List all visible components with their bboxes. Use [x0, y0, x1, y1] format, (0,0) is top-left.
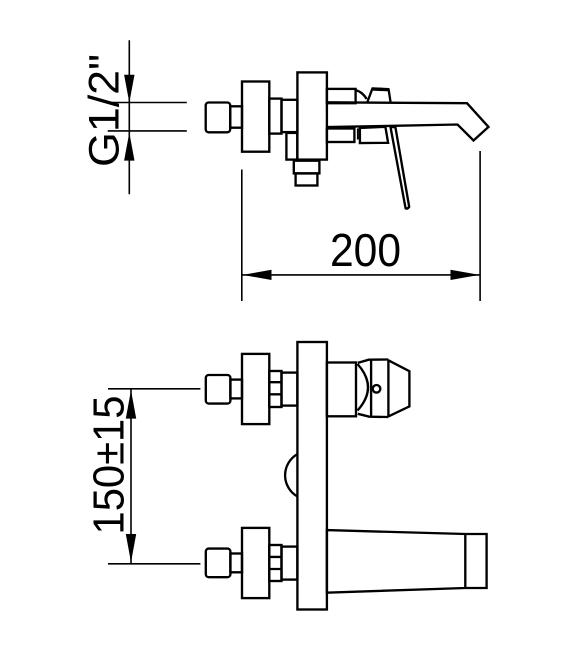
top view: inlet step — [230, 106, 242, 127]
bottom view: lower body connector — [282, 547, 298, 580]
bottom view: upper nut — [206, 375, 231, 404]
bottom view: knob base — [327, 363, 356, 417]
top view: aerator step 2 — [296, 173, 318, 185]
bottom view: lower hex facet lines — [269, 557, 281, 569]
dim G1/2: down arrowhead — [124, 75, 134, 103]
dim 150: down arrowhead — [126, 534, 136, 562]
bottom view: lower flange — [242, 528, 269, 598]
bottom view: lower hex — [269, 545, 281, 581]
bottom view: upper hex — [269, 371, 281, 407]
bottom view: upper body connector — [282, 373, 298, 406]
dim 150: upper extension line — [108, 388, 200, 390]
dim 200: dimension line — [242, 274, 480, 276]
bottom view: upper hex facet lines — [269, 382, 281, 394]
top view: handle grip bold top edge — [372, 87, 389, 91]
bottom view: cascade bump — [285, 454, 297, 496]
dim G1/2: dimension line — [128, 40, 130, 194]
top view: body connector — [282, 100, 298, 132]
dim G1/2: up arrowhead — [124, 133, 134, 161]
top view: handle lever — [391, 127, 410, 209]
bottom view: knob faceted end — [388, 360, 409, 418]
bottom view: knob cone top edge — [358, 360, 389, 363]
bottom view: upper step — [230, 380, 242, 399]
dim 150: lower extension line — [108, 563, 200, 565]
bottom view: knob face left edge — [370, 360, 372, 417]
dim 150: up arrowhead — [126, 390, 136, 418]
top view: aerator step 1 — [294, 161, 320, 174]
bottom view: wall plate — [297, 342, 327, 610]
bottom view: spout — [327, 530, 487, 593]
top view: lower stub — [327, 129, 355, 143]
top view: inlet nut — [206, 103, 231, 133]
svg-text:G1/2": G1/2" — [81, 54, 129, 167]
dim 150: dimension line — [130, 389, 132, 564]
bottom view: lower nut — [206, 549, 231, 578]
top view: under-spout housing — [360, 127, 388, 143]
bottom view: upper flange — [242, 354, 269, 424]
top view: inlet flange — [242, 82, 269, 152]
dim 200: left extension line — [241, 170, 243, 302]
dim 200: right extension line — [479, 151, 481, 301]
top view: cartridge dome arc — [356, 90, 367, 99]
top view: ring — [357, 128, 359, 139]
bottom view: lower step — [230, 554, 242, 573]
top view: handle grip — [367, 89, 390, 103]
top view: wall plate — [297, 72, 327, 159]
svg-text:150±15: 150±15 — [85, 396, 134, 535]
dim G1/2: upper extension line — [108, 102, 187, 104]
top view: upper stub — [327, 89, 356, 103]
top view: spout — [327, 102, 489, 140]
top view: lower body — [286, 133, 297, 160]
bottom view: knob dome arc — [358, 364, 369, 411]
dim 200: left arrowhead — [243, 270, 272, 280]
bottom view: knob dot — [373, 385, 381, 393]
dim 200: right arrowhead — [451, 270, 480, 280]
bottom view: knob cone bottom edge — [358, 414, 389, 417]
top view: hex connector — [269, 99, 281, 134]
dim G1/2: lower extension line — [108, 130, 187, 132]
svg-text:200: 200 — [330, 224, 401, 276]
